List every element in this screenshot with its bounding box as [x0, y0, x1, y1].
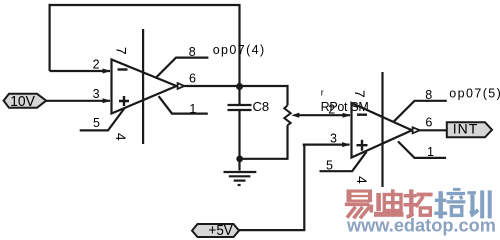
- watermark char 迪: [374, 189, 404, 217]
- wire node A down to C8: [238, 86, 240, 105]
- wire U1 pin2 input: [50, 70, 110, 72]
- svg-text:10V: 10V: [10, 93, 35, 110]
- capacitor C8 top plate: [228, 104, 252, 106]
- svg-text:7: 7: [352, 90, 368, 98]
- svg-text:op07(4): op07(4): [213, 43, 266, 57]
- wire U2 pin1 stub: [398, 141, 446, 158]
- op-amp U2 output arrow: [413, 127, 420, 133]
- svg-text:2: 2: [93, 58, 100, 72]
- svg-text:7: 7: [113, 47, 129, 55]
- svg-text:3: 3: [93, 87, 100, 101]
- op-amp U2 plus sign: [357, 140, 368, 151]
- pot wiper arrow: [291, 113, 299, 118]
- wire U2 pin5 stub: [320, 152, 367, 172]
- wire U2 output to INT: [420, 129, 447, 131]
- wire C8 to ground node: [238, 110, 240, 171]
- svg-text:2: 2: [328, 102, 335, 116]
- port +5V: [192, 224, 239, 237]
- wire 10V to U1 pin3: [45, 100, 110, 102]
- node junction dot B: [236, 156, 243, 163]
- capacitor C8 bottom plate: [228, 109, 252, 111]
- pin arrow U1 pin3: [103, 98, 111, 103]
- watermark char 易: [345, 190, 372, 219]
- wire U1 output to pot: [184, 85, 287, 87]
- wire feedback top horizontal: [49, 4, 241, 6]
- op-amp U1 minus sign: [118, 68, 128, 70]
- wire U1 pin8 stub: [155, 58, 208, 79]
- svg-text:INT: INT: [453, 121, 479, 137]
- wire feedback left vertical: [48, 4, 50, 71]
- svg-text:C8: C8: [253, 99, 270, 114]
- op-amp U2 minus sign: [357, 113, 367, 115]
- op-amp U2 op07(5) triangle: [352, 103, 413, 158]
- wire pot bottom lead: [286, 125, 288, 159]
- ground symbol: [224, 172, 257, 185]
- potentiometer R? zigzag: [284, 105, 290, 125]
- svg-text:4: 4: [113, 133, 129, 141]
- pin arrow U2 pin2: [343, 113, 351, 118]
- pin arrow U1 pin2: [103, 69, 111, 74]
- svg-text:+5V: +5V: [209, 222, 233, 239]
- wire U1 pin5 stub: [80, 108, 125, 131]
- node junction dot A: [236, 83, 243, 90]
- wire U2 pin8 stub: [394, 101, 447, 122]
- watermark char 培: [434, 188, 465, 219]
- wire node B to pot bottom: [240, 158, 289, 160]
- pin arrow U2 pin3: [342, 142, 350, 147]
- svg-text:6: 6: [425, 116, 432, 130]
- op-amp U2 power line pins 7/4: [381, 72, 383, 187]
- svg-text:r: r: [321, 88, 324, 98]
- svg-text:5: 5: [93, 116, 100, 130]
- svg-text:6: 6: [189, 71, 196, 85]
- wire pot wiper to U2 pin2: [296, 114, 350, 116]
- port 10V: [4, 94, 47, 108]
- op-amp U1 power line pins 7/4: [142, 29, 144, 144]
- wire U1 pin1 stub: [159, 96, 208, 113]
- wire pot top lead: [286, 85, 288, 106]
- op-amp U1 output arrow: [178, 83, 185, 89]
- svg-text:op07(5): op07(5): [449, 86, 500, 100]
- op-amp U1 op07(4) triangle: [112, 60, 177, 114]
- wire U2 pin3 input: [303, 144, 350, 146]
- watermark char 拓: [404, 189, 433, 216]
- op-amp U1 plus sign: [119, 96, 129, 106]
- wire +5V riser: [239, 145, 304, 231]
- svg-text:www.edatop.com: www.edatop.com: [346, 215, 496, 235]
- watermark char 训: [467, 190, 491, 218]
- wire feedback right vertical: [238, 5, 240, 86]
- port INT: [447, 122, 492, 137]
- svg-text:4: 4: [354, 176, 370, 184]
- svg-text:3: 3: [330, 132, 337, 146]
